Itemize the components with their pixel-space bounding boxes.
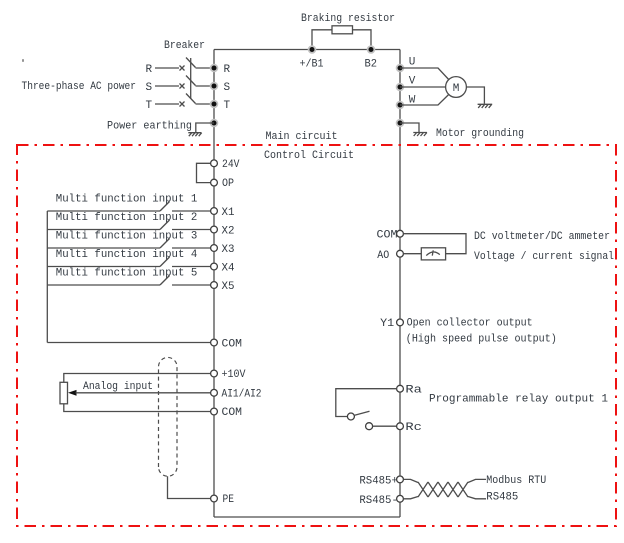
svg-text:X2: X2	[222, 226, 235, 238]
svg-text:Multi function input 4: Multi function input 4	[56, 249, 198, 261]
junction: terminal S	[210, 82, 219, 91]
svg-text:AO: AO	[377, 250, 389, 262]
potentiometer wiper arrow	[68, 390, 77, 396]
terminal OP	[211, 179, 218, 186]
resistor: braking resistor body	[332, 26, 353, 34]
wire: input 4 feed	[47, 266, 160, 268]
wire: COM to meter return	[403, 234, 466, 254]
wire: inverter main-box left edge bus	[213, 50, 215, 518]
pin label B2	[365, 59, 378, 71]
svg-text:Multi function input 5: Multi function input 5	[56, 267, 198, 279]
wire: input bus to COM	[47, 342, 210, 344]
relay K1 blade	[355, 411, 370, 415]
svg-text:OP: OP	[222, 178, 234, 190]
terminal COM (digital)	[211, 339, 218, 346]
terminal RS485+	[397, 476, 404, 483]
terminal COM (analog)	[211, 408, 218, 415]
wire: inverter main-box bottom edge	[214, 516, 400, 518]
label: Motor grounding	[436, 128, 524, 140]
node T (supply side)	[146, 100, 153, 112]
wire: input common left bus	[46, 211, 48, 343]
pin label X5	[222, 281, 235, 293]
svg-text:T: T	[146, 100, 153, 112]
svg-text:DC voltmeter/DC ammeter: DC voltmeter/DC ammeter	[474, 231, 610, 243]
svg-text:Multi function input 1: Multi function input 1	[56, 193, 198, 205]
label: DC voltmeter/DC ammeter	[474, 231, 610, 243]
svg-text:Programmable relay output 1: Programmable relay output 1	[429, 394, 608, 406]
label: RS485	[486, 492, 518, 504]
wire: RS485- into twisted pair	[403, 497, 418, 499]
svg-text:Main circuit: Main circuit	[266, 131, 338, 143]
pin label R (inverter)	[224, 64, 231, 76]
pin label X4	[222, 263, 235, 275]
svg-text:Braking resistor: Braking resistor	[301, 13, 395, 25]
wire: inverter main-box right edge bus	[399, 50, 401, 518]
svg-text:Power earthing: Power earthing	[107, 121, 192, 133]
svg-text:+10V: +10V	[222, 369, 246, 381]
svg-text:Y1: Y1	[380, 318, 394, 330]
pin label +10V	[222, 369, 246, 381]
wire: Ra to relay pole	[336, 389, 397, 417]
wire: U to motor	[400, 68, 449, 80]
label: Multi function input 4	[56, 249, 198, 261]
potentiometer RP body	[60, 382, 68, 404]
pin label 24V	[222, 159, 240, 171]
junction: terminal B2	[367, 45, 376, 54]
node S (supply side)	[146, 82, 153, 94]
terminal Ra	[397, 385, 404, 392]
wire: power earth terminal to ground	[196, 123, 214, 132]
switch S1 blade	[160, 202, 170, 212]
svg-text:U: U	[409, 57, 416, 69]
wire: phase T input	[155, 103, 179, 105]
wire: wiper to AI1/AI2	[76, 392, 211, 394]
svg-text:Analog input: Analog input	[83, 381, 153, 393]
svg-text:Three-phase AC power: Three-phase AC power	[22, 81, 137, 93]
pin label Ra	[405, 385, 422, 397]
pin label X2	[222, 226, 235, 238]
relay K1 pole contact	[347, 413, 354, 420]
svg-text:Motor grounding: Motor grounding	[436, 128, 524, 140]
svg-text:X5: X5	[222, 281, 235, 293]
svg-text:Breaker: Breaker	[164, 40, 205, 52]
pin label X3	[222, 244, 235, 256]
svg-text:X4: X4	[222, 263, 235, 275]
label: (High speed pulse output)	[406, 334, 557, 346]
label: Voltage / current signal	[474, 251, 614, 263]
wire: inverter main-box top edge (+/B1 to B2 bus)	[214, 49, 400, 51]
junction: terminal W	[396, 101, 405, 110]
svg-text:S: S	[146, 82, 153, 94]
pin label COM	[222, 339, 243, 351]
breaker pole T contact mark	[180, 102, 185, 107]
svg-text:R: R	[224, 64, 231, 76]
svg-text:RS485-: RS485-	[359, 495, 398, 507]
twisted pair braid	[418, 482, 468, 497]
wire: switch S3 to X3	[172, 247, 211, 249]
pin label V	[409, 76, 416, 88]
svg-text:Control Circuit: Control Circuit	[264, 150, 354, 162]
svg-text:AI1/AI2: AI1/AI2	[222, 388, 262, 400]
pin label +/B1	[300, 59, 324, 71]
terminal X5	[211, 282, 218, 289]
label: Multi function input 2	[56, 212, 198, 224]
wire: switch S1 to X1	[172, 210, 211, 212]
pin label COM	[222, 407, 243, 419]
wire: potentiometer bottom to COM	[64, 404, 211, 412]
pin label AI1/AI2	[222, 388, 262, 400]
svg-text:Voltage / current signal: Voltage / current signal	[474, 251, 614, 263]
pin label PE	[223, 494, 235, 506]
wire: twisted pair out bottom	[468, 497, 486, 499]
terminal Rc	[397, 423, 404, 430]
junction: terminal U	[396, 64, 405, 73]
label: Programmable relay output 1	[429, 394, 608, 406]
shield: analog cable screen	[159, 357, 178, 476]
pin label T (inverter)	[224, 100, 231, 112]
wire: switch S5 to X5	[172, 284, 211, 286]
node R (supply side)	[146, 64, 153, 76]
svg-text:R: R	[146, 64, 153, 76]
pin label COM (analog output)	[377, 229, 398, 241]
wire: breaker R to terminal R	[196, 67, 215, 69]
label: Breaker	[164, 40, 205, 52]
breaker pole T blade	[186, 94, 196, 104]
svg-text:Ra: Ra	[405, 385, 422, 397]
terminal AI1/AI2	[211, 389, 218, 396]
svg-text:Rc: Rc	[405, 422, 422, 434]
terminal X1	[211, 208, 218, 215]
svg-text:X1: X1	[222, 207, 235, 219]
relay K1 throw contact	[366, 423, 373, 430]
label: Power earthing	[107, 121, 192, 133]
label: Analog input	[83, 381, 153, 393]
junction: motor grounding terminal	[396, 119, 405, 128]
wire: 24V-OP jumper	[197, 163, 212, 182]
terminal +10V	[211, 370, 218, 377]
wire: V to motor	[400, 86, 446, 88]
junction: power earth terminal	[210, 119, 219, 128]
terminal COM (analog output)	[397, 230, 404, 237]
svg-text:(High speed pulse output): (High speed pulse output)	[406, 334, 557, 346]
terminal AO	[397, 250, 404, 257]
junction: terminal R	[210, 64, 219, 73]
wire: input 5 feed	[47, 284, 160, 286]
label: Braking resistor	[301, 13, 395, 25]
breaker pole R contact mark	[180, 66, 185, 71]
pin label Y1	[380, 318, 394, 330]
wire: switch S2 to X2	[172, 229, 211, 231]
breaker pole R blade	[186, 58, 196, 68]
wire: phase R input	[155, 67, 179, 69]
wire: +/B1 riser to braking resistor	[312, 30, 332, 50]
svg-text:Open collector output: Open collector output	[407, 318, 533, 330]
wire: switch S4 to X4	[172, 266, 211, 268]
svg-text:24V: 24V	[222, 159, 240, 171]
wire: braking resistor to B2 riser	[353, 30, 372, 50]
label: Three-phase AC power	[22, 81, 137, 93]
junction: terminal T	[210, 100, 219, 109]
svg-text:+/B1: +/B1	[300, 59, 324, 71]
label: Main circuit	[266, 131, 338, 143]
svg-text:X3: X3	[222, 244, 235, 256]
wire: input 2 feed	[47, 229, 160, 231]
control circuit boundary (red dash-dot box)	[17, 145, 616, 526]
terminal X4	[211, 263, 218, 270]
switch S5 blade	[160, 276, 170, 286]
svg-text:COM: COM	[377, 229, 398, 241]
wire: relay throw to Rc	[373, 425, 397, 427]
ground: power earthing symbol	[188, 133, 201, 137]
label: Multi function input 3	[56, 230, 198, 242]
svg-text:Multi function input 3: Multi function input 3	[56, 230, 198, 242]
svg-text:COM: COM	[222, 407, 243, 419]
label: Modbus RTU	[486, 475, 546, 487]
wire: RS485+ into twisted pair	[403, 479, 418, 482]
meter M1 (DC voltmeter/ammeter)	[421, 248, 445, 260]
wire: motor grounding terminal to ground	[400, 123, 419, 132]
svg-text:RS485+: RS485+	[359, 475, 398, 487]
pin label AO	[377, 250, 389, 262]
ground: motor grounding symbol	[413, 133, 427, 137]
breaker pole S contact mark	[180, 84, 185, 89]
pin label RS485+	[359, 475, 398, 487]
label: Control Circuit	[264, 150, 354, 162]
pin label Rc	[405, 422, 422, 434]
wire: phase S input	[155, 85, 179, 87]
terminal X3	[211, 245, 218, 252]
breaker pole S blade	[186, 76, 196, 86]
wire: motor frame to ground	[466, 87, 484, 104]
pin label RS485-	[359, 495, 398, 507]
switch S3 blade	[160, 239, 170, 249]
ground: motor frame earth	[478, 104, 493, 108]
motor M	[446, 77, 467, 98]
terminal RS485-	[397, 495, 404, 502]
svg-text:M: M	[453, 83, 460, 95]
junction: terminal V	[396, 83, 405, 92]
terminal PE	[211, 495, 218, 502]
pin label X1	[222, 207, 235, 219]
wire: breaker T to terminal T	[196, 103, 215, 105]
svg-text:RS485: RS485	[486, 492, 518, 504]
wire: twisted pair out top	[468, 479, 486, 482]
wire: input 1 feed	[47, 210, 160, 212]
terminal X2	[211, 226, 218, 233]
svg-text:S: S	[224, 82, 231, 94]
svg-text:V: V	[409, 76, 416, 88]
wire: W to motor	[400, 95, 449, 106]
pin label S (inverter)	[224, 82, 231, 94]
wire: breaker S to terminal S	[196, 85, 215, 87]
label: Multi function input 1	[56, 193, 198, 205]
svg-text:Multi function input 2: Multi function input 2	[56, 212, 198, 224]
svg-text:T: T	[224, 100, 231, 112]
terminal Y1	[397, 319, 404, 326]
switch S4 blade	[160, 257, 170, 267]
pin label W	[409, 95, 416, 107]
switch S2 blade	[160, 220, 170, 230]
stray mark (speck)	[22, 59, 24, 62]
svg-text:COM: COM	[222, 339, 243, 351]
wire: AO to meter	[403, 253, 421, 255]
terminal 24V	[211, 160, 218, 167]
junction: terminal +/B1	[308, 45, 317, 54]
wire: shield drain to PE	[168, 476, 211, 498]
wire: input 3 feed	[47, 247, 160, 249]
wire: +10V to potentiometer top	[64, 374, 211, 383]
svg-text:PE: PE	[223, 494, 235, 506]
svg-text:Modbus RTU: Modbus RTU	[486, 475, 546, 487]
svg-text:B2: B2	[365, 59, 378, 71]
label: Open collector output	[407, 318, 533, 330]
label: Multi function input 5	[56, 267, 198, 279]
breaker gang link	[190, 58, 192, 99]
pin label U	[409, 57, 416, 69]
pin label OP	[222, 178, 234, 190]
